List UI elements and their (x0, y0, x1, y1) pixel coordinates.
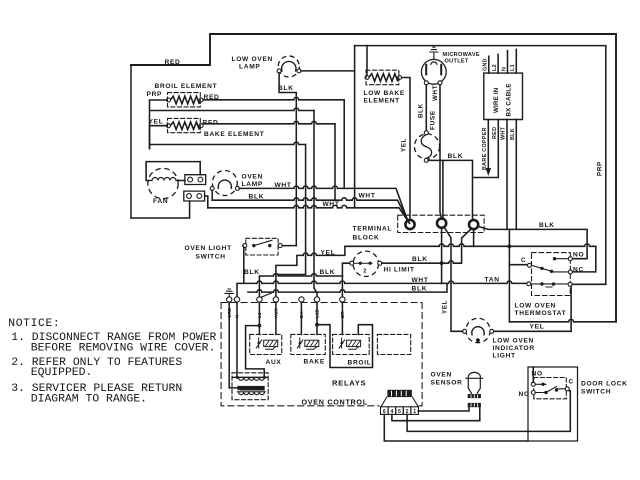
svg-text:BAKE ELEMENT: BAKE ELEMENT (204, 131, 264, 138)
transformer secondary coil (238, 391, 266, 393)
svg-text:WHT: WHT (359, 193, 376, 200)
svg-text:BLK: BLK (412, 256, 428, 263)
svg-text:OVEN CONTROL: OVEN CONTROL (302, 398, 368, 407)
svg-text:THERMOSTAT: THERMOSTAT (515, 310, 567, 317)
wire pin 4 to oven sensor right (392, 407, 480, 420)
outlet slot left (425, 65, 427, 75)
wire supply L2 lead (497, 54, 499, 73)
wire BLK row (oven lamp left to terminal block) (212, 198, 409, 223)
wire diagonal L1 terminal to BLK row (261, 292, 274, 297)
wire AUX drop to relay (275, 302, 277, 334)
wire hi-limit BR vertical (341, 276, 343, 297)
svg-text:LAMP: LAMP (242, 181, 263, 188)
node junction TAN riser on BLK wire (440, 261, 444, 265)
node junction L1 (258, 324, 262, 328)
svg-text:EQUIPPED.: EQUIPPED. (31, 367, 93, 379)
svg-text:BLK: BLK (539, 222, 555, 229)
svg-text:WHT: WHT (323, 201, 340, 208)
oven sensor dome (466, 372, 483, 378)
relay BROIL (333, 334, 370, 354)
wire N drop to transformer (236, 302, 238, 377)
terminal hi-limit left (350, 261, 354, 265)
node junction YEL column (508, 244, 512, 248)
arrow transformer primary (238, 385, 244, 390)
svg-text:LOW OVEN: LOW OVEN (493, 338, 535, 345)
svg-text:BROIL: BROIL (348, 360, 372, 367)
svg-text:OVEN LIGHT: OVEN LIGHT (185, 245, 232, 252)
indicator lamp filament (472, 327, 484, 335)
terminal fan plug upper-right (198, 177, 203, 182)
dashed box terminal block (398, 215, 484, 232)
wire bare copper lead with arrow (487, 120, 489, 170)
svg-text:NC: NC (519, 391, 530, 398)
wire post3 drop to YEL run (473, 229, 475, 246)
wire L1B branch to broil relay (hook around broil box) (317, 325, 373, 368)
wire BA drop to relay (300, 302, 302, 334)
svg-text:C: C (569, 379, 574, 386)
wire fan plug lower-right to WHT row (205, 196, 208, 208)
fan dashed circle (148, 168, 178, 198)
wire BLK (post 3 to thermostat NO) (478, 226, 587, 259)
wire YEL (aux terminal across to thermostat NC) (276, 244, 596, 297)
wire WHT row (fan to terminal block) (208, 205, 410, 223)
terminal fan plug lower-left (187, 194, 192, 199)
svg-text:BLK: BLK (418, 103, 425, 118)
oven sensor body (468, 378, 480, 394)
outlet ground pin arc (431, 62, 437, 64)
svg-text:SWITCH: SWITCH (581, 389, 611, 396)
wire L1B drop with junction (316, 302, 318, 334)
svg-text:NC: NC (573, 267, 584, 274)
relay spare dashed box (377, 334, 410, 354)
wire lamp BLK drop (to oven light switch) (279, 73, 296, 246)
svg-text:WHT: WHT (275, 182, 292, 189)
wire bake RED (right terminal to vertical drop) (203, 121, 335, 123)
svg-text:TERMINAL: TERMINAL (353, 226, 393, 233)
wire WHT lead from BX cable (506, 120, 508, 230)
terminal thermostat pole2 right (568, 282, 572, 286)
transformer primary coil (239, 377, 265, 380)
wire junction column (dot down past TAN to YEL run) (508, 229, 510, 321)
wire switch left BLK drop (242, 246, 245, 284)
svg-text:LAMP: LAMP (239, 64, 260, 71)
indicator lamp base dot (476, 338, 480, 342)
wire BR drop into broil relay (341, 302, 343, 334)
wire pin 2 to door lock C riser (407, 391, 570, 432)
svg-text:BARE COPPER: BARE COPPER (482, 127, 488, 170)
connector fan plug lower box (184, 191, 205, 201)
door lock outer box (528, 367, 578, 441)
terminal indicator right (490, 329, 494, 333)
terminal fuse bottom (424, 158, 428, 162)
terminal broil right (199, 98, 203, 102)
svg-text:YEL: YEL (149, 119, 164, 126)
lamp low oven lamp (dashed circle) (278, 56, 299, 77)
terminal low bake right (398, 76, 402, 80)
wire pin 1 to door lock bottom (384, 414, 528, 441)
wire oven lamp left BLK drop (211, 190, 213, 200)
transformer core (240, 386, 265, 391)
svg-text:BX CABLE: BX CABLE (506, 83, 513, 116)
wire broil return (left terminal around below) (150, 100, 315, 150)
svg-text:BEFORE REMOVING WIRE COVER.: BEFORE REMOVING WIRE COVER. (31, 343, 216, 355)
wire bake-return vertical to AUX column (276, 145, 306, 275)
svg-text:BLOCK: BLOCK (353, 235, 380, 242)
wire broil-RED vertical down to WHT row (343, 100, 345, 189)
fuse dashed circle (414, 134, 439, 159)
svg-text:BROIL ELEMENT: BROIL ELEMENT (155, 83, 218, 90)
svg-text:BLK: BLK (320, 269, 336, 276)
hi-limit dashed circle (353, 251, 378, 276)
wire PRP (inner top run down right side to thermostat) (355, 46, 606, 285)
ground symbol oven control (225, 289, 234, 296)
door lock contacts (535, 384, 565, 392)
wire hi-limit right BLK to post3 riser (382, 230, 471, 264)
wire low bake right YEL drop to terminal block (402, 78, 410, 220)
wire YEL from post2 to indicator left (444, 227, 462, 331)
transformer dashed box (232, 373, 268, 400)
wire BLK row (to terminal post 2) (248, 283, 447, 292)
terminal oven lamp left (210, 186, 214, 190)
wire fan coil to plug (178, 180, 185, 182)
wire lamp right to inner line (301, 70, 355, 72)
wire inner-line vertical down to WHT row (354, 46, 356, 208)
wire low bake left up to inner line (366, 46, 368, 76)
svg-text:BAKE: BAKE (304, 359, 325, 366)
svg-text:WHT: WHT (412, 277, 429, 284)
terminal outlet right (438, 81, 442, 85)
dashed box oven control (221, 303, 422, 406)
svg-text:C: C (521, 257, 526, 264)
svg-text:YEL: YEL (442, 300, 449, 314)
svg-text:LOW OVEN: LOW OVEN (515, 303, 557, 310)
svg-text:PRP: PRP (147, 91, 163, 98)
door lock dashed box (534, 378, 567, 399)
terminal thermostat NO (568, 257, 572, 261)
svg-text:DIAGRAM TO RANGE.: DIAGRAM TO RANGE. (31, 393, 147, 405)
terminal block post 3 (469, 220, 478, 229)
oven sensor band lower (468, 403, 481, 407)
svg-text:2: 2 (363, 269, 366, 275)
terminal fan plug lower-right (197, 194, 202, 199)
svg-text:RED: RED (165, 59, 181, 66)
fuse element S-curve (421, 135, 431, 159)
wire broil RED (right terminal to vertical drop) (203, 97, 344, 99)
svg-text:OVEN: OVEN (431, 372, 453, 379)
connector header block (387, 390, 412, 397)
wire broil-return vertical to L1B terminal (314, 111, 317, 297)
terminal thermostat C (528, 263, 532, 267)
svg-text:WHT: WHT (501, 126, 507, 140)
svg-text:RED: RED (492, 127, 498, 139)
wire supply N lead (507, 51, 509, 74)
svg-text:AUX: AUX (266, 359, 282, 366)
indicator lamp dashed circle (466, 318, 490, 342)
svg-text:RED: RED (203, 120, 219, 127)
svg-text:BLK: BLK (510, 128, 516, 140)
svg-text:SWITCH: SWITCH (196, 254, 226, 261)
svg-text:OUTLET: OUTLET (445, 59, 469, 65)
svg-text:L2: L2 (492, 64, 498, 71)
svg-text:LIGHT: LIGHT (493, 353, 516, 360)
fan motor coil (149, 178, 178, 181)
svg-text:BLK: BLK (249, 194, 265, 201)
switch oven light dashed box (246, 238, 278, 255)
svg-text:BLK: BLK (278, 85, 294, 92)
wire bake return (left terminal around below) (150, 126, 306, 150)
wire L1 branch to transformer primary (246, 326, 265, 378)
wire supply GND lead (488, 56, 490, 73)
terminal door lock NC (531, 391, 535, 395)
dashed box broil element (168, 93, 201, 107)
svg-text:TAN: TAN (485, 277, 500, 284)
wire pole2 right drop to indicator wire (570, 286, 572, 331)
oven light switch contacts (252, 244, 255, 247)
terminal lamp right (297, 69, 301, 73)
wire hi-limit left to BR drop (342, 263, 349, 276)
terminal thermostat NC (568, 270, 572, 274)
svg-text:NO: NO (573, 252, 584, 259)
svg-text:WIRE IN: WIRE IN (493, 87, 500, 113)
svg-text:SENSOR: SENSOR (431, 380, 463, 387)
dashed box low bake element (366, 70, 399, 85)
arrow bare copper (486, 168, 491, 176)
terminal indicator left (463, 329, 467, 333)
wire GRD drop to transformer arrow (229, 302, 237, 388)
terminal oven light switch left (243, 244, 247, 248)
terminal bake right (199, 124, 203, 128)
resistor low bake element (369, 74, 398, 82)
wire L1 drop with junction (258, 302, 260, 334)
wire branch to thermostat C (509, 264, 527, 266)
outlet slot right (440, 65, 442, 75)
wire TAN riser to post 2 (441, 228, 443, 283)
svg-text:MICROWAVE: MICROWAVE (443, 52, 480, 58)
terminal lamp left (277, 69, 281, 73)
resistor bake element (170, 122, 199, 130)
wire fan loop top (146, 162, 200, 181)
wire pin 4 to oven sensor left (418, 407, 469, 411)
wire switch right to lamp BLK column (282, 245, 296, 247)
terminal fuse top (424, 131, 428, 135)
wire WHT/TAN row (N terminal to thermostat pole2) (237, 281, 527, 297)
svg-text:GND: GND (483, 58, 489, 71)
svg-text:FUSE: FUSE (429, 110, 436, 130)
svg-text:ELEMENT: ELEMENT (364, 98, 400, 105)
terminal block post 1 (405, 220, 414, 229)
wire outer border (RED run, top and right) (131, 34, 616, 322)
terminal outlet left (424, 81, 428, 85)
svg-text:LOW OVEN: LOW OVEN (232, 56, 274, 63)
lamp oven lamp filament (218, 180, 231, 188)
svg-text:INDICATOR: INDICATOR (493, 345, 535, 352)
terminal low bake left (365, 76, 369, 80)
svg-text:BLK: BLK (412, 286, 428, 293)
notice text block (8, 318, 216, 406)
outlet microwave circle (421, 59, 446, 84)
svg-text:YEL: YEL (321, 250, 336, 257)
connector fan plug upper box (185, 175, 206, 185)
svg-text:RELAYS: RELAYS (332, 379, 366, 388)
relay AUX (250, 334, 282, 354)
wire indicator right to thermostat pole2 riser (494, 330, 571, 332)
wire fan return along bottom-left (131, 201, 190, 218)
terminal hi-limit right (378, 261, 382, 265)
svg-text:OVEN: OVEN (242, 174, 264, 181)
svg-text:YEL: YEL (530, 324, 545, 331)
terminal fan plug upper-left (188, 177, 193, 182)
relay BAKE (291, 334, 326, 354)
terminal door lock NO (531, 382, 535, 386)
transformer top rail (233, 376, 267, 378)
svg-text:1: 1 (413, 409, 416, 415)
dashed box bake element (168, 118, 201, 132)
wire BLK lead from BX cable (515, 120, 517, 230)
terminals oven control header (227, 297, 232, 302)
lamp oven lamp dashed circle (212, 171, 237, 196)
thermostat pole1 contacts (532, 259, 569, 272)
svg-text:FAN: FAN (153, 198, 168, 205)
thermostat pole2 contacts (531, 284, 568, 287)
terminal thermostat pole2 left (527, 282, 531, 286)
lamp low oven lamp filament (282, 61, 296, 71)
wire outlet BLK to fuse (425, 85, 427, 131)
terminal door lock C (565, 387, 569, 391)
svg-text:BLK: BLK (448, 153, 464, 160)
connector shroud sides (381, 397, 418, 406)
wire supply L1 lead (515, 49, 517, 73)
svg-text:L1: L1 (510, 64, 516, 71)
terminal bake left (167, 124, 171, 128)
terminal oven light switch right (278, 244, 282, 248)
svg-text:YEL: YEL (401, 138, 408, 152)
svg-text:HI LIMIT: HI LIMIT (384, 267, 415, 274)
resistor broil element (170, 96, 199, 104)
wire RED lead from BX cable (473, 120, 499, 178)
terminal oven lamp right (235, 186, 239, 190)
terminal broil left (167, 98, 171, 102)
svg-text:N: N (502, 67, 508, 71)
wire BLK row mid (to L1 column) (259, 274, 342, 297)
connector pins 6 4 5 2 1 (381, 407, 389, 415)
thermostat dashed box (532, 253, 571, 296)
ground symbol microwave outlet (430, 47, 438, 59)
wire RED feed (left vertical) (130, 65, 132, 218)
svg-text:PRP: PRP (597, 161, 604, 176)
svg-text:LOW BAKE: LOW BAKE (364, 90, 406, 97)
wire fuse bottom BLK run to terminal block drops (428, 160, 472, 219)
svg-text:BLK: BLK (244, 269, 260, 276)
svg-text:WHT: WHT (432, 85, 439, 101)
svg-text:NOTICE:: NOTICE: (8, 318, 60, 330)
terminal block post 2 (437, 219, 446, 228)
oven sensor band upper (468, 394, 481, 398)
wire WHT row (oven lamp right to terminal block) (239, 186, 408, 221)
node junction L1B (315, 323, 319, 327)
svg-text:DOOR LOCK: DOOR LOCK (581, 381, 628, 388)
wire YEL bottom-right run (border corner to junction column) (509, 319, 616, 321)
box WIRE IN BX CABLE (484, 73, 523, 119)
hi-limit contacts (359, 262, 362, 265)
wire outlet WHT to terminal block (440, 85, 441, 219)
wire door lock NO to box top (532, 367, 534, 382)
svg-text:5: 5 (398, 409, 401, 415)
wire bake-RED vertical down to BLK row (334, 124, 336, 200)
